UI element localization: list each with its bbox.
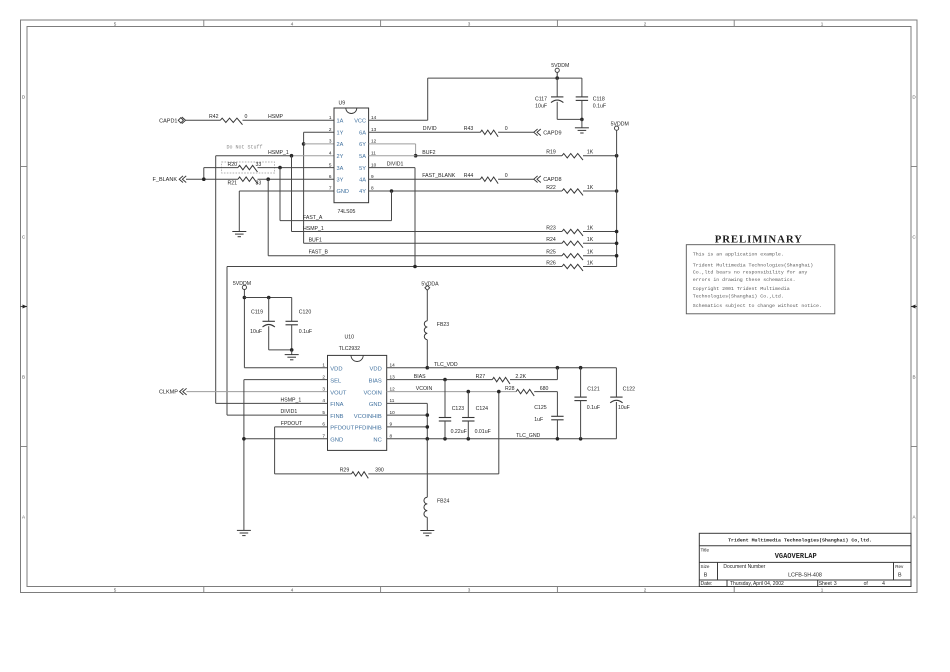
svg-text:R43: R43: [464, 126, 474, 132]
svg-text:4: 4: [882, 581, 885, 587]
port CAPD8: [534, 176, 538, 183]
resistor R22: [562, 189, 583, 196]
svg-text:FPDOUT: FPDOUT: [281, 421, 303, 427]
svg-text:VOUT: VOUT: [330, 390, 347, 396]
wire F_BLANK to R21: [186, 178, 238, 180]
svg-text:10uF: 10uF: [250, 329, 262, 335]
svg-text:CAPD1: CAPD1: [159, 118, 177, 124]
svg-text:1Y: 1Y: [337, 131, 344, 137]
svg-text:5VDDM: 5VDDM: [233, 281, 251, 287]
wire U10 pin 13 BIAS: [387, 379, 493, 381]
wire R26 to rail: [583, 266, 617, 268]
junction VCOIN C124: [467, 390, 471, 394]
svg-text:4A: 4A: [359, 177, 366, 183]
svg-text:HSMP: HSMP: [268, 114, 284, 120]
svg-text:3: 3: [468, 21, 471, 26]
svg-text:5VDDA: 5VDDA: [421, 281, 439, 287]
wire 5VDDM top rail: [428, 77, 582, 79]
svg-text:FB23: FB23: [437, 322, 450, 328]
junction pin10: [426, 413, 430, 417]
port CAPD9: [534, 129, 538, 136]
svg-text:5A: 5A: [359, 154, 366, 160]
wire R21 to U9 pin 6: [258, 178, 335, 180]
svg-text:Copyright 2001 Trident Multime: Copyright 2001 Trident Multimedia: [693, 286, 790, 292]
junction R21 right / FAST_B: [266, 177, 270, 181]
wire U10 pin 12 VCOIN: [387, 391, 516, 393]
svg-text:1K: 1K: [587, 225, 594, 231]
svg-text:BUF1: BUF1: [309, 237, 322, 243]
svg-text:U9: U9: [339, 101, 346, 107]
junction VCOIN R29: [497, 390, 501, 394]
wire R22 to rail: [583, 190, 617, 192]
wire C117-C118 bottom: [557, 118, 582, 120]
resistor R20: [238, 165, 257, 172]
svg-text:TLC_VDD: TLC_VDD: [434, 362, 458, 368]
svg-text:7: 7: [329, 186, 332, 191]
svg-text:3Y: 3Y: [337, 177, 344, 183]
svg-text:3: 3: [322, 386, 325, 391]
capacitor C117: [556, 78, 558, 97]
svg-text:5: 5: [114, 588, 117, 593]
wire HSMP_1 into FINA: [216, 402, 328, 404]
wire U9 pin 14 VCC: [369, 119, 428, 121]
svg-text:390: 390: [375, 468, 384, 474]
wire 5VDDM to U10 VDD: [243, 290, 245, 368]
svg-text:4: 4: [329, 150, 332, 155]
preliminary note box: [686, 245, 835, 314]
svg-text:13: 13: [390, 374, 396, 379]
svg-text:FAST_BLANK: FAST_BLANK: [422, 173, 455, 179]
wire U9 pin 8 4Y: [369, 190, 562, 192]
wire caps bottom: [269, 349, 292, 351]
svg-text:Thursday, April 04, 2002: Thursday, April 04, 2002: [730, 581, 784, 587]
wire U9 pin 10 5Y DIVID1: [369, 167, 415, 169]
op-amp U10 TLC2932 body: [328, 355, 387, 450]
junction caps bottom: [290, 348, 294, 352]
ground below SEL: [237, 529, 251, 531]
junction NC FB24: [426, 437, 430, 441]
wire R25 to rail: [583, 255, 617, 257]
svg-text:Trident Multimedia Technologie: Trident Multimedia Technologies(Shanghai…: [693, 263, 813, 269]
resistor R43: [480, 130, 498, 137]
svg-text:F_BLANK: F_BLANK: [153, 177, 178, 183]
ground below C118: [581, 119, 583, 127]
svg-text:R19: R19: [546, 150, 556, 156]
junction HSMP_1: [290, 154, 294, 158]
wire CAPD1 to R42: [186, 119, 220, 121]
svg-text:3A: 3A: [337, 166, 344, 172]
svg-text:GND: GND: [337, 189, 349, 195]
svg-text:FINA: FINA: [330, 402, 343, 408]
svg-text:C122: C122: [623, 386, 636, 392]
svg-text:0.1uF: 0.1uF: [587, 405, 600, 411]
wire F_BLANK up-jog to R20: [203, 168, 205, 180]
svg-text:R20: R20: [228, 162, 238, 168]
wire FAST_A vertical: [279, 168, 281, 221]
svg-text:R23: R23: [546, 225, 556, 231]
svg-text:4: 4: [291, 21, 294, 26]
svg-text:2: 2: [329, 127, 332, 132]
svg-text:B: B: [912, 374, 915, 379]
svg-text:R29: R29: [340, 468, 350, 474]
svg-text:R25: R25: [546, 250, 556, 256]
dashed box around R20: [222, 162, 275, 173]
resistor R25: [562, 254, 583, 261]
resistor R19: [562, 154, 583, 161]
svg-text:FB24: FB24: [437, 499, 450, 505]
svg-text:PFDOUT: PFDOUT: [330, 426, 354, 432]
junction R25 rail: [615, 254, 619, 258]
svg-text:R44: R44: [464, 173, 474, 179]
svg-text:Technologies(Shanghai) Co.,Ltd: Technologies(Shanghai) Co.,Ltd.: [693, 294, 784, 300]
svg-text:Do Not Stuff: Do Not Stuff: [227, 144, 263, 150]
wire TLC_VDD down right side: [615, 368, 617, 397]
svg-text:Title: Title: [701, 548, 710, 553]
wire U9 pin 12 6Y: [369, 143, 416, 145]
svg-text:10: 10: [371, 162, 377, 167]
svg-text:D: D: [22, 94, 26, 99]
resistor R42: [220, 118, 242, 125]
svg-text:Sheet: Sheet: [819, 581, 833, 587]
svg-text:9: 9: [371, 174, 374, 179]
ground below C120: [291, 350, 293, 355]
ferrite bead FB24: [426, 439, 428, 497]
wire U9 pin 13 DIVID: [369, 131, 481, 133]
svg-text:1uF: 1uF: [534, 417, 543, 423]
ground below FB24: [420, 530, 434, 532]
svg-text:C124: C124: [476, 406, 489, 412]
svg-text:1K: 1K: [587, 185, 594, 191]
svg-text:8: 8: [390, 434, 393, 439]
svg-text:C120: C120: [299, 310, 312, 316]
wire FAST_B vertical: [267, 179, 269, 256]
svg-text:0: 0: [245, 114, 248, 120]
svg-text:R24: R24: [546, 237, 556, 243]
svg-text:FAST_B: FAST_B: [309, 250, 329, 256]
wire U9 pin 2 1Y: [304, 131, 334, 133]
svg-text:10: 10: [390, 410, 396, 415]
svg-text:Co.,ltd bears no responsibilit: Co.,ltd bears no responsibility for any: [693, 270, 808, 276]
wire R28 to C125: [534, 391, 557, 393]
wire R29 to VCOIN node: [368, 473, 499, 475]
wire DIVID1 into FINB: [227, 414, 328, 416]
svg-text:Trident Multimedia Technologie: Trident Multimedia Technologies(Shanghai…: [728, 538, 872, 544]
svg-text:1A: 1A: [337, 119, 344, 125]
ground U9: [232, 231, 246, 233]
svg-text:3: 3: [468, 588, 471, 593]
capacitor C119: [268, 298, 270, 322]
svg-text:C118: C118: [593, 96, 605, 102]
svg-text:0.01uF: 0.01uF: [475, 429, 491, 435]
wire to C119 C120: [244, 297, 291, 299]
svg-text:2: 2: [322, 374, 325, 379]
wire U9 pin 9 4A: [369, 178, 481, 180]
wire R20 to U9 pin 5: [258, 167, 335, 169]
wire U10 pin 9 PFDINHIB: [387, 426, 428, 428]
wire R24 to rail: [583, 242, 617, 244]
svg-text:A: A: [22, 514, 26, 519]
svg-text:14: 14: [390, 362, 396, 367]
svg-text:33: 33: [256, 181, 262, 187]
svg-text:C121: C121: [587, 386, 600, 392]
svg-text:6: 6: [322, 422, 325, 427]
junction C119 top: [267, 296, 271, 300]
junction R24 rail: [615, 242, 619, 246]
junction C121 bottom: [579, 437, 583, 441]
svg-text:VCC: VCC: [354, 119, 366, 125]
ferrite bead FB23: [426, 290, 428, 321]
svg-text:D: D: [912, 94, 916, 99]
svg-text:5: 5: [322, 410, 325, 415]
svg-text:10uF: 10uF: [535, 103, 547, 109]
resistor R27: [492, 377, 510, 384]
svg-text:R22: R22: [546, 185, 556, 191]
svg-text:4: 4: [291, 588, 294, 593]
wire R43 to CAPD9: [498, 131, 534, 133]
svg-text:C125: C125: [534, 405, 547, 411]
net DIVID1 row to R26: [227, 266, 562, 268]
resistor R24: [562, 241, 583, 248]
svg-text:12: 12: [390, 386, 396, 391]
svg-text:GND: GND: [330, 438, 343, 444]
svg-text:0: 0: [505, 126, 508, 132]
svg-text:10uF: 10uF: [618, 405, 630, 411]
junction FB23 TLC_VDD: [426, 366, 430, 370]
svg-text:5: 5: [329, 162, 332, 167]
svg-text:VGAOVERLAP: VGAOVERLAP: [775, 553, 817, 561]
wire U9 ground stem: [238, 191, 240, 232]
svg-text:VCOINHIB: VCOINHIB: [354, 414, 382, 420]
svg-text:LCFB-SH-408: LCFB-SH-408: [788, 573, 822, 579]
svg-text:0.22uF: 0.22uF: [451, 429, 467, 435]
junction BIAS C123: [443, 378, 447, 382]
svg-text:R28: R28: [505, 386, 515, 392]
svg-text:NC: NC: [373, 438, 381, 444]
svg-text:A: A: [912, 514, 916, 519]
svg-text:0.1uF: 0.1uF: [593, 103, 606, 109]
svg-text:DIVID: DIVID: [423, 126, 437, 132]
svg-text:R21: R21: [228, 181, 238, 187]
svg-text:This is an application example: This is an application example.: [693, 252, 784, 258]
svg-text:CAPD8: CAPD8: [543, 177, 561, 183]
junction 6Y to 5A: [414, 154, 418, 158]
svg-text:VDD: VDD: [330, 366, 342, 372]
junction C117 top: [555, 76, 559, 80]
wire BUF2 to R19: [416, 155, 562, 157]
svg-text:Date:: Date:: [701, 581, 713, 587]
capacitor C125: [551, 415, 563, 417]
svg-text:3: 3: [329, 139, 332, 144]
wire FAST_A vertical right: [391, 191, 393, 221]
svg-text:C123: C123: [452, 406, 465, 412]
junction TLC_VDD R27: [556, 366, 560, 370]
svg-text:C119: C119: [251, 310, 263, 316]
svg-text:4: 4: [322, 398, 325, 403]
svg-text:2: 2: [644, 21, 647, 26]
svg-text:VDD: VDD: [370, 366, 382, 372]
svg-text:2A: 2A: [337, 142, 344, 148]
svg-text:HSMP_1: HSMP_1: [268, 150, 289, 156]
svg-text:12: 12: [371, 139, 377, 144]
wire BUF1 vertical from 1Y: [303, 132, 305, 243]
junction C125 bottom: [556, 437, 560, 441]
wire R23 to rail: [583, 231, 617, 233]
svg-text:3: 3: [834, 581, 837, 587]
svg-text:R27: R27: [476, 374, 486, 380]
svg-text:6: 6: [329, 174, 332, 179]
svg-text:4Y: 4Y: [359, 189, 366, 195]
svg-text:SEL: SEL: [330, 378, 342, 384]
svg-text:FINB: FINB: [330, 414, 343, 420]
svg-text:6Y: 6Y: [359, 142, 366, 148]
wire U10 pin 2 SEL: [244, 379, 328, 381]
capacitor C120: [291, 298, 293, 322]
svg-text:5Y: 5Y: [359, 166, 366, 172]
wire U9 pin 11 5A stub: [369, 155, 416, 157]
svg-text:VCOIN: VCOIN: [363, 390, 381, 396]
junction R19 rail: [615, 154, 619, 158]
svg-text:14: 14: [371, 115, 377, 120]
junction F_BLANK: [202, 177, 206, 181]
svg-text:Schematics subject to change w: Schematics subject to change without not…: [693, 303, 822, 309]
wire U9 pin 7 GND: [239, 190, 334, 192]
svg-text:U10: U10: [345, 334, 355, 340]
junction 4Y FAST_A: [390, 189, 394, 193]
svg-text:HSMP_1: HSMP_1: [303, 226, 324, 232]
junction DIVID1 row: [413, 265, 417, 269]
svg-text:5: 5: [114, 21, 117, 26]
resistor R28: [516, 389, 534, 396]
capacitor C123: [444, 380, 446, 418]
svg-text:Document Number: Document Number: [723, 564, 765, 570]
svg-text:errors in drawing these schema: errors in drawing these schematics.: [693, 277, 796, 283]
svg-text:7: 7: [322, 434, 325, 439]
svg-text:5VDDM: 5VDDM: [551, 63, 569, 69]
junction R20 right / FAST_A: [278, 166, 282, 170]
svg-text:C: C: [22, 234, 26, 239]
svg-text:2Y: 2Y: [337, 154, 344, 160]
junction TLC_VDD C121: [579, 366, 583, 370]
svg-text:TLC2932: TLC2932: [339, 346, 360, 352]
svg-text:1: 1: [821, 21, 824, 26]
resistor R23: [562, 229, 583, 236]
junction caps to ground: [580, 118, 584, 122]
junction R22 rail: [615, 189, 619, 193]
svg-text:CLKMP: CLKMP: [159, 390, 178, 396]
svg-text:Size: Size: [701, 564, 710, 569]
svg-text:6A: 6A: [359, 131, 366, 137]
svg-text:B: B: [704, 573, 708, 579]
svg-text:9: 9: [390, 422, 393, 427]
resistor R44: [480, 177, 498, 184]
wire PFDOUT loop: [275, 426, 328, 428]
wire U10 pin 11 GND: [387, 402, 428, 404]
svg-text:1: 1: [329, 115, 332, 120]
svg-text:1K: 1K: [587, 237, 594, 243]
svg-text:Rev: Rev: [895, 564, 904, 569]
wire HSMP_1 vertical to U10 FINA: [215, 156, 217, 404]
svg-text:B: B: [22, 374, 25, 379]
title block: [699, 533, 911, 586]
capacitor C121: [580, 368, 582, 397]
wire R27 to TLC_VDD: [510, 379, 557, 381]
svg-text:B: B: [898, 573, 902, 579]
wire CLKMP to U10 VOUT: [186, 391, 327, 393]
wire R42 to U9 pin 1 (net HSMP): [243, 119, 335, 121]
svg-text:2: 2: [644, 588, 647, 593]
resistor R21: [238, 177, 257, 184]
wire VCC vertical to 5VDDM rail: [427, 78, 429, 120]
wire 5VDDM rail vertical: [616, 130, 618, 266]
svg-text:BIAS: BIAS: [369, 378, 382, 384]
capacitor C118: [581, 78, 583, 97]
svg-text:HSMP_1: HSMP_1: [281, 397, 302, 403]
junction R23 rail: [615, 230, 619, 234]
wire R19 to rail: [583, 155, 617, 157]
svg-text:5VDDM: 5VDDM: [611, 122, 629, 128]
junction 5VDDM caps: [243, 296, 247, 300]
svg-text:PRELIMINARY: PRELIMINARY: [715, 234, 803, 246]
svg-text:0.1uF: 0.1uF: [299, 329, 312, 335]
svg-text:C117: C117: [535, 96, 547, 102]
svg-text:DIVID1: DIVID1: [387, 161, 404, 167]
wire R44 to CAPD8: [498, 178, 534, 180]
wire DIVID1 down to U10 FINB: [226, 267, 228, 416]
svg-text:1K: 1K: [587, 250, 594, 256]
svg-text:of: of: [864, 581, 869, 587]
svg-text:11: 11: [390, 398, 395, 403]
svg-text:1K: 1K: [587, 150, 594, 156]
wire HSMP_1 vertical to R23 row: [291, 156, 293, 232]
wire U9 pin 4 2Y: [216, 155, 292, 157]
svg-text:11: 11: [371, 150, 376, 155]
svg-text:PFDINHIB: PFDINHIB: [355, 426, 382, 432]
svg-text:1: 1: [322, 362, 325, 367]
resistor R26: [562, 264, 583, 271]
wire SEL ground vertical: [243, 380, 245, 531]
junction GND-SEL: [242, 437, 246, 441]
svg-text:0: 0: [505, 173, 508, 179]
svg-text:BUF2: BUF2: [422, 150, 435, 156]
svg-text:1: 1: [821, 588, 824, 593]
svg-text:74LS05: 74LS05: [338, 209, 356, 215]
resistor R29: [352, 472, 369, 479]
svg-text:1K: 1K: [587, 260, 594, 266]
wire U10 pin 10 VCOINHIB: [387, 414, 428, 416]
svg-text:R26: R26: [546, 260, 556, 266]
wire U10 pin 14 to TLC_VDD: [387, 367, 428, 369]
junction C123 bottom: [443, 437, 447, 441]
op-amp U9 74LS05 body: [334, 108, 369, 203]
svg-text:R42: R42: [209, 114, 219, 120]
junction 1Y-2A tie: [302, 142, 306, 146]
svg-text:CAPD9: CAPD9: [543, 130, 561, 136]
svg-text:DIVID1: DIVID1: [281, 409, 298, 415]
svg-text:GND: GND: [369, 402, 382, 408]
svg-text:TLC_GND: TLC_GND: [516, 433, 540, 439]
svg-text:8: 8: [371, 186, 374, 191]
svg-text:C: C: [912, 234, 916, 239]
junction pin9: [426, 425, 430, 429]
capacitor C124: [467, 392, 469, 418]
junction C124 bottom: [467, 437, 471, 441]
capacitor C122: [610, 396, 622, 398]
wire U9 pin 3 2A stub: [304, 143, 334, 145]
wire U10 pin 7 GND: [244, 438, 328, 440]
wire DIVID1 vertical: [414, 168, 416, 267]
svg-text:13: 13: [371, 127, 377, 132]
net TLC_GND row: [387, 438, 617, 440]
